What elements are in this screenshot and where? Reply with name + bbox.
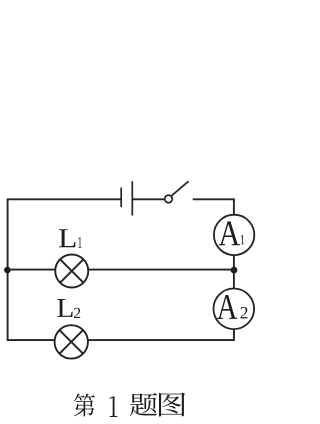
ammeter A2: letter A: [217, 295, 237, 319]
wire: top-left horizontal, corner to battery negative plate: [7, 198, 121, 200]
ammeter A1: subscript 1: [241, 235, 244, 244]
label L1: subscript 1: [78, 237, 81, 248]
wire: lamp L1 right side to node B: [89, 269, 234, 271]
caption digit 1: [110, 396, 118, 417]
ammeter A1: letter A: [219, 221, 240, 245]
switch: open lever arm: [171, 181, 188, 196]
label L2: letter L: [57, 299, 72, 317]
lamp L1: circle: [55, 255, 88, 288]
label L1: letter L: [59, 229, 75, 247]
wire: switch to top-right corner and down to ammeter A1: [193, 199, 234, 214]
label L2: subscript 2: [74, 308, 80, 318]
caption character 第: [74, 393, 95, 416]
wire: node B down to ammeter A2: [233, 270, 235, 288]
wire: A1 bottom to node B: [233, 256, 235, 271]
battery: long (positive) plate: [131, 181, 133, 215]
ammeter A1: circle: [214, 215, 254, 255]
wire: battery positive plate to switch pivot: [132, 198, 165, 200]
wire: A2 bottom to bottom-right corner then left to lamp L2: [89, 330, 234, 341]
ammeter A2: circle: [214, 289, 255, 330]
ammeter A2: subscript 2: [240, 307, 247, 319]
lamp L2: circle: [55, 325, 88, 358]
caption character 图: [159, 392, 185, 416]
wire: node A right to lamp L1: [8, 269, 55, 271]
node B: right junction dot: [231, 267, 238, 274]
lamp L2: X cross: [59, 330, 83, 354]
wire: lamp L2 left side to bottom-left corner and up to top-left corner: [8, 199, 55, 340]
caption character 题: [130, 393, 157, 416]
lamp L1: X cross: [60, 259, 83, 282]
node A: left junction dot: [4, 267, 11, 274]
battery: short (negative) plate: [120, 188, 122, 208]
switch: pivot circle: [165, 195, 173, 203]
